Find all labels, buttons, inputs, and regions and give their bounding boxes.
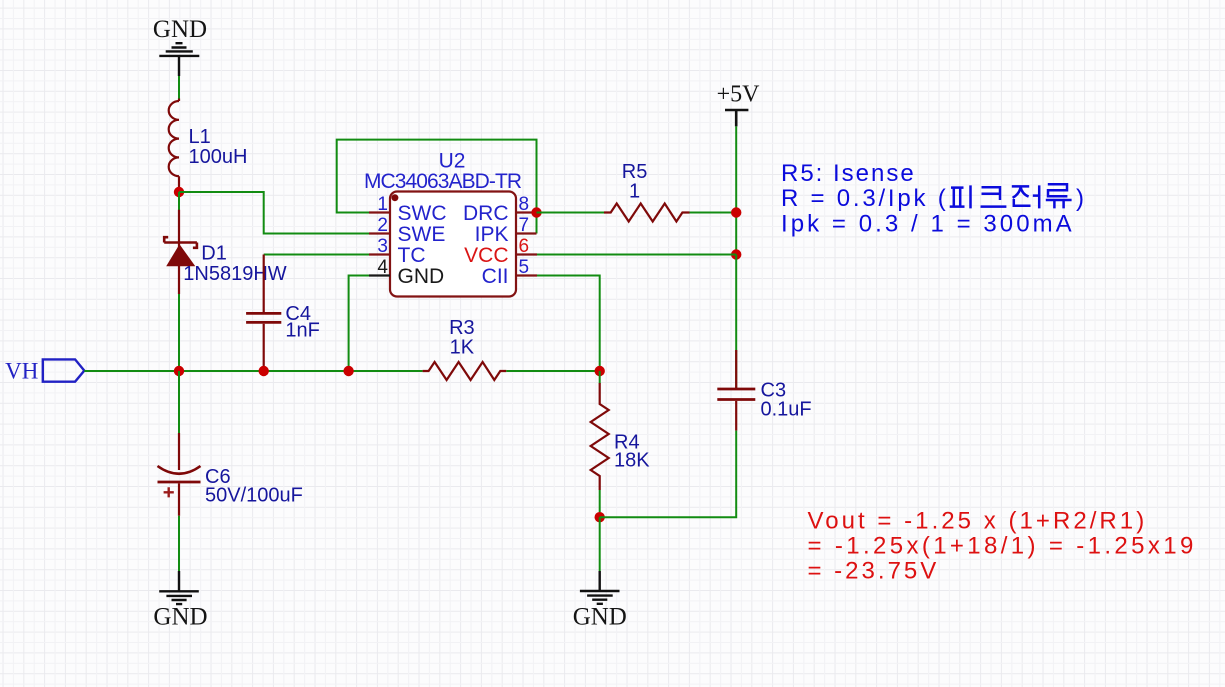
wire node to GND mid	[599, 517, 601, 571]
svg-text:1: 1	[377, 194, 388, 215]
annotation korean 전	[1012, 185, 1039, 208]
svg-text:): )	[1076, 185, 1084, 212]
wire VH bus	[84, 370, 422, 372]
annotation korean 류	[1046, 184, 1072, 208]
svg-text:R = 0.3/Ipk (: R = 0.3/Ipk (	[781, 185, 946, 212]
wire +5V down	[735, 126, 737, 254]
capacitor C4	[246, 255, 281, 372]
svg-text:SWC: SWC	[398, 202, 447, 225]
node bus at pin4 wire	[343, 366, 353, 376]
node VCC at +5V rail	[731, 249, 741, 259]
svg-text:0.1uF: 0.1uF	[761, 399, 812, 421]
wire L1 node down to D1	[178, 192, 180, 210]
svg-text:+5V: +5V	[717, 82, 761, 108]
svg-text:VH: VH	[5, 359, 38, 384]
label R3 value	[449, 317, 475, 359]
node bus at D1/C6	[174, 366, 184, 376]
wire GND pin4 to bus	[349, 276, 369, 372]
port VH	[5, 359, 84, 384]
annotation korean 크	[981, 187, 1007, 206]
svg-text:TC: TC	[398, 244, 426, 267]
wire pin8 to R5	[537, 212, 605, 214]
svg-text:L1: L1	[189, 126, 211, 148]
wire CII to R4 node	[537, 276, 600, 372]
label C4 value	[285, 303, 319, 342]
svg-text:IPK: IPK	[475, 223, 509, 246]
pin 3 stub	[369, 253, 390, 255]
label R5 value	[622, 161, 648, 203]
svg-text:GND: GND	[398, 265, 445, 288]
svg-text:Ipk = 0.3 / 1 = 300mA: Ipk = 0.3 / 1 = 300mA	[781, 210, 1072, 237]
pin 6 stub	[516, 253, 537, 255]
wire D1 to bus	[178, 294, 180, 371]
wire R5 to +5V rail	[690, 212, 737, 214]
wire R3 to R4 node	[506, 370, 599, 372]
svg-text:DRC: DRC	[463, 202, 509, 225]
svg-text:GND: GND	[573, 603, 627, 630]
ground GND bottom left	[159, 571, 199, 604]
wire L1 node to SWE elbow	[179, 192, 369, 234]
svg-text:Vout = -1.25 x (1+R2/R1): Vout = -1.25 x (1+R2/R1)	[808, 508, 1145, 535]
ground GND top	[159, 43, 199, 76]
wire R4 node to lead	[599, 371, 601, 384]
wire R4 to bottom node	[599, 490, 601, 517]
node R3/R4/CII	[595, 366, 605, 376]
svg-text:4: 4	[377, 257, 388, 278]
node junction below L1	[174, 187, 184, 197]
svg-text:1: 1	[629, 181, 640, 203]
label L1 value	[189, 126, 248, 168]
svg-text:R5: Isense: R5: Isense	[781, 160, 914, 187]
node bus at C4	[259, 366, 269, 376]
svg-text:GND: GND	[153, 16, 207, 43]
svg-text:MC34063ABD-TR: MC34063ABD-TR	[364, 170, 522, 193]
ground GND middle	[580, 571, 620, 604]
power +5V	[717, 82, 761, 127]
node R4 bottom	[595, 512, 605, 522]
svg-text:50V/100uF: 50V/100uF	[205, 485, 303, 507]
label D1 value	[183, 243, 287, 286]
label R4 value	[614, 432, 650, 472]
wire C3 to bottom node	[600, 431, 737, 518]
svg-text:1N5819HW: 1N5819HW	[183, 263, 287, 285]
wire VCC	[537, 254, 736, 256]
svg-text:GND: GND	[153, 603, 207, 630]
annotation korean 피	[950, 185, 971, 208]
inductor L1	[169, 99, 179, 193]
wire TC	[264, 254, 369, 256]
svg-text:2: 2	[377, 215, 388, 236]
svg-text:= -1.25x(1+18/1) = -1.25x19: = -1.25x(1+18/1) = -1.25x19	[808, 533, 1194, 560]
svg-text:100uH: 100uH	[189, 146, 248, 168]
label C3 value	[761, 380, 812, 421]
svg-text:1K: 1K	[450, 337, 475, 359]
svg-text:SWE: SWE	[398, 223, 446, 246]
diode D1 1N5819HW	[164, 210, 197, 294]
svg-text:D1: D1	[201, 243, 227, 265]
svg-text:8: 8	[519, 194, 530, 215]
pin 7 stub	[516, 232, 537, 234]
wire GND to L1	[178, 76, 180, 100]
pin 4 stub (black)	[369, 274, 390, 276]
resistor R3	[423, 362, 507, 380]
label C6 value	[205, 466, 303, 507]
pin 1 stub	[369, 211, 390, 213]
svg-text:CII: CII	[482, 265, 509, 288]
resistor R4	[591, 383, 609, 490]
svg-text:5: 5	[519, 257, 530, 278]
capacitor C3	[717, 255, 755, 431]
svg-text:1nF: 1nF	[285, 320, 319, 342]
svg-text:6: 6	[519, 236, 530, 257]
node R5 at +5V rail	[731, 207, 741, 217]
op-amp U2 MC34063ABD-TR body	[390, 192, 516, 297]
svg-text:= -23.75V: = -23.75V	[808, 558, 937, 585]
wire C6 to GND	[178, 516, 180, 571]
pin 8 stub	[516, 211, 537, 213]
svg-text:7: 7	[519, 215, 530, 236]
capacitor C6 polarized	[158, 371, 201, 516]
wire SWC loop over IC	[337, 140, 537, 234]
svg-text:VCC: VCC	[464, 244, 508, 267]
resistor R5	[604, 204, 690, 222]
svg-text:3: 3	[377, 236, 388, 257]
pin 2 stub	[369, 232, 390, 234]
svg-text:18K: 18K	[614, 450, 650, 472]
pin 5 stub	[516, 274, 537, 276]
node junction at pin 8	[531, 207, 541, 217]
